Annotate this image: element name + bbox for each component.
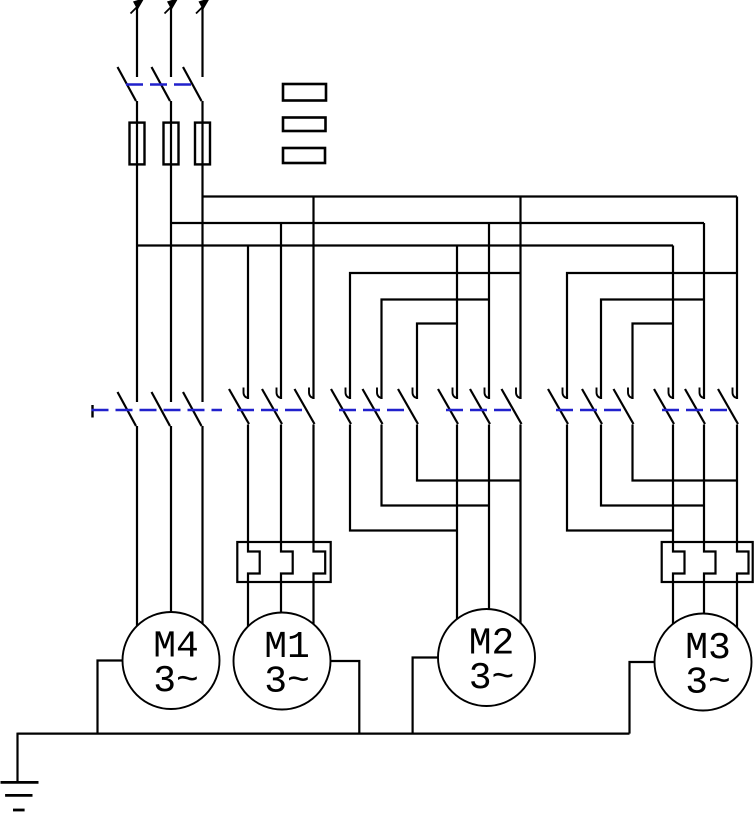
- branch wire to K2a pole2: [382, 300, 490, 400]
- contactor K1 linkage (blue dashed): [237, 409, 304, 412]
- wire L2 to switch: [170, 8, 172, 77]
- ground stub motor M4: [98, 661, 123, 734]
- wire K1 pole2 through overload F4 to motor: [281, 425, 293, 613]
- wire drop to K3b pole3: [736, 197, 738, 400]
- contactor K2a pole 3: [398, 388, 418, 425]
- overload relay F4 box: [237, 542, 330, 582]
- wire L3 through fuse to M4 switch: [201, 101, 203, 402]
- wire drop to K1 pole1: [247, 246, 249, 400]
- contactor K1 pole 1: [229, 388, 249, 425]
- wire Q2 pole3 to motor M4: [201, 426, 203, 624]
- wire K3a pole3 output: [633, 425, 738, 481]
- supply arrow L1: [131, 0, 145, 14]
- label box 1: [283, 84, 326, 101]
- contactor K3b pole 1: [654, 388, 674, 425]
- supply arrow L2: [165, 0, 179, 14]
- wire K1 pole3 through overload F4 to motor: [314, 425, 326, 625]
- wire K3b pole2 through overload F5 to motor: [704, 425, 716, 614]
- contactor K1 pole 3: [295, 388, 315, 425]
- contactor K3b pole 2: [685, 388, 705, 425]
- switch Q1 blade pole 2: [152, 67, 171, 101]
- motor M4: [123, 612, 220, 709]
- contactor K3a linkage (blue dashed): [556, 409, 624, 412]
- wire drop to K2b pole2: [488, 223, 490, 399]
- wire K3b pole3 through overload F5 to motor: [737, 425, 749, 628]
- switch Q2 blade pole 1: [118, 392, 137, 426]
- ground lead: [16, 733, 18, 783]
- bus L3 (top): [203, 195, 738, 197]
- contactor K2a linkage (blue dashed): [339, 409, 408, 412]
- contactor K3b pole 3: [718, 388, 738, 425]
- contactor K2b pole 3: [502, 388, 522, 425]
- wire K2a pole2 output: [382, 425, 490, 506]
- branch wire to K3a pole3: [633, 324, 674, 400]
- switch Q1 blade pole 1: [118, 67, 137, 101]
- svg-text:3~: 3~: [685, 662, 731, 705]
- switch Q2 terminal bar: [91, 405, 93, 418]
- switch Q2 blade pole 2: [152, 392, 171, 426]
- switch Q2 blade pole 3: [183, 392, 202, 426]
- wire K3a pole2 output: [601, 425, 704, 506]
- ground stub motor M2: [413, 658, 438, 734]
- switch Q1 blade pole 3: [183, 67, 202, 101]
- wire L3 to switch: [201, 8, 203, 77]
- wire K2a pole1 output: [350, 425, 457, 531]
- overload relay F5 box: [662, 542, 753, 582]
- wire drop to K3b pole1: [672, 246, 674, 400]
- contactor K2a pole 1: [331, 388, 351, 425]
- contactor K2b pole 1: [438, 388, 458, 425]
- wire K2b pole1 to motor: [456, 425, 458, 620]
- wire drop to K2b pole1: [456, 246, 458, 400]
- contactor K2b pole 2: [470, 388, 490, 425]
- fuse F2: [164, 123, 179, 165]
- wire K2b pole2 to motor: [488, 425, 490, 610]
- switch Q1 linkage (blue dashed): [126, 83, 196, 86]
- branch wire to K2a pole3: [417, 324, 457, 400]
- wire L1 through fuse to M4 switch: [136, 101, 138, 402]
- wire K2a pole3 output: [417, 425, 521, 481]
- motor M3: [655, 614, 752, 711]
- motor M2: [438, 609, 535, 706]
- wire K3b pole1 through overload F5 to motor: [673, 425, 685, 624]
- wire Q2 pole1 to motor M4: [136, 426, 138, 626]
- wire K1 pole1 through overload F4 to motor: [248, 425, 260, 627]
- supply arrow L3: [196, 0, 210, 14]
- wire L1 to switch: [136, 8, 138, 77]
- wire drop to K3b pole2: [703, 223, 705, 399]
- bus L2 (middle): [171, 222, 704, 224]
- svg-text:3~: 3~: [469, 657, 515, 700]
- ground symbol: [1, 782, 39, 810]
- branch wire to K2a pole1: [350, 273, 521, 399]
- ground bus wire: [18, 732, 630, 734]
- contactor K2b linkage (blue dashed): [446, 409, 512, 412]
- label box 3: [283, 148, 325, 163]
- branch wire to K3a pole1: [567, 273, 737, 399]
- fuse F1: [130, 123, 145, 165]
- ground stub motor M3: [630, 662, 655, 734]
- branch wire to K3a pole2: [601, 300, 704, 400]
- wire drop to K2b pole3: [519, 197, 521, 400]
- wire Q2 pole2 to motor M4: [170, 426, 172, 612]
- wire drop to K1 pole2: [280, 223, 282, 399]
- label box 2: [283, 118, 326, 132]
- contactor K2a pole 2: [363, 388, 383, 425]
- wire L2 through fuse to M4 switch: [170, 101, 172, 402]
- motor M1: [234, 613, 331, 710]
- wire K2b pole3 to motor: [519, 425, 521, 623]
- svg-text:3~: 3~: [153, 660, 199, 703]
- fuse F3: [195, 123, 210, 165]
- contactor K3a pole 3: [614, 388, 634, 425]
- bus L1 (bottom): [137, 244, 673, 246]
- contactor K3a pole 2: [582, 388, 602, 425]
- svg-text:3~: 3~: [264, 661, 310, 704]
- switch Q2 linkage (blue dashed): [92, 409, 223, 412]
- contactor K3a pole 1: [548, 388, 568, 425]
- contactor K1 pole 2: [262, 388, 282, 425]
- contactor K3b linkage (blue dashed): [662, 409, 729, 412]
- ground stub motor M1: [331, 661, 360, 734]
- wire K3a pole1 output: [567, 425, 673, 531]
- wire drop to K1 pole3: [312, 197, 314, 400]
